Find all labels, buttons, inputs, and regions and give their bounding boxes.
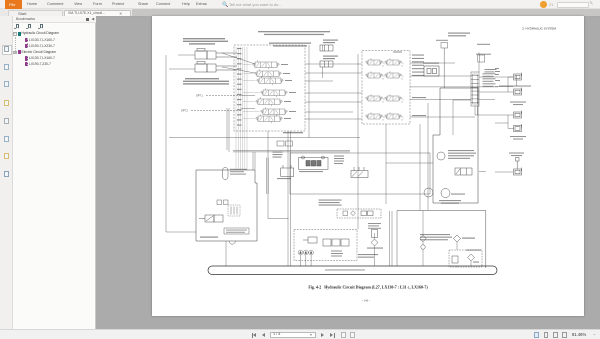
swing motor M1 [424,188,433,197]
wire [305,111,353,113]
return filter drain wire [470,261,472,266]
svg-text:2. HYDRAULIC SYSTEM: 2. HYDRAULIC SYSTEM [522,27,556,31]
solenoid manifold [351,167,368,178]
pilot valve row squares [343,211,348,216]
boom cylinder labels [183,38,225,39]
anti-drift riser wire [322,45,324,51]
travel-right spool [256,97,283,106]
bucket spool [257,76,284,85]
pilot manifold squares [217,200,228,205]
rotary joint drop wire [474,106,476,115]
svg-text:OPT 2: OPT 2 [181,110,189,113]
pump pressure rail wire [357,54,359,230]
cooler riser wire [479,171,486,173]
swing motor spool A [366,58,385,66]
port relief valve [423,63,439,64]
main pump P2 [303,250,308,255]
motor wire [475,114,508,116]
right bank labels [412,55,424,56]
swing valve label [476,54,491,55]
pump relief valve [303,237,317,243]
vertical dotted tree lines [15,37,16,53]
solenoid valve SV1 [455,168,472,175]
gear pump P3 [309,250,314,255]
pump dashed enclosure [294,230,357,261]
pump suction wire [300,255,302,266]
motor wire [479,91,508,93]
main valve label [485,69,497,70]
swing/travel valve dashed enclosure [362,51,410,125]
wire [305,92,362,94]
solenoid valve labels [448,33,470,34]
drain rail wire [427,103,429,211]
tank drop wire [290,131,292,266]
travel spool A [366,94,385,102]
rotary joint text block [483,73,496,74]
travel motor left block B [514,124,522,132]
check port block [281,165,294,176]
pilot filter labels [368,223,381,224]
check valve block [277,141,293,146]
wire [305,118,362,120]
anti-drift valve V1 [323,40,338,41]
right bank drain wire [385,124,387,204]
travel motor right block B [514,88,522,96]
pressure check coupler [516,158,520,170]
pilot feed double wire [227,108,229,152]
pilot filter F1 [372,230,378,238]
cooler outlet wire [456,242,458,250]
bank link wire [305,72,362,74]
boom spool [253,60,280,69]
main pump label [358,254,378,255]
attachment motor M2 [441,189,450,198]
block bottom notch [229,241,235,244]
cooler branch wire [422,211,424,236]
attachment piping note [258,31,330,32]
return filter valve [452,256,458,263]
main relief valve label [283,132,303,133]
motor labels [451,194,465,195]
wire [305,80,333,82]
suction strainer label [200,237,218,238]
travel-left spool [256,114,283,123]
pilot filter dashed column [228,205,240,216]
solenoid feed wire [452,100,454,135]
stop valve [478,53,485,63]
tank drop wire [287,131,289,266]
swing brake label [510,136,526,137]
svg-text:Fig. 4-2 Hydraulic Circuit D: Fig. 4-2 Hydraulic Circuit Diagram (L27,… [308,285,428,290]
stop valve riser wire [478,62,480,72]
upper solenoid block [441,43,448,89]
rotary joint [471,72,479,106]
travel motor bracket wire [508,77,514,92]
main control valve dashed enclosure [234,45,305,131]
rotary joint feed wire [410,75,471,77]
option spool [261,107,288,116]
solenoid text lines [420,234,450,235]
accumulator labels [448,150,474,151]
wire [305,101,362,103]
pump suction wire [310,255,312,266]
pilot supply rail wire [233,150,350,152]
main pump P1 [298,250,303,255]
return filter dashed box [449,250,482,267]
solenoid valve SV2 [199,215,223,222]
travel motor left block A [514,111,522,119]
arm spool [255,69,282,78]
travel spool B [366,112,385,120]
tank label [325,269,365,270]
oil limiter label [477,44,490,45]
accumulator A1 [437,152,445,160]
travel feed wire [410,116,475,118]
right drain rail wire [419,124,421,211]
oil cooler [454,235,461,242]
anti-drift valve V2 [323,56,338,57]
swivel labels [334,156,344,157]
rotary joint feed wire [410,86,498,88]
rotary joint feed wire [410,98,471,100]
main valve title [393,52,402,53]
pump regulator block [323,239,349,246]
remote control valve enclosure [196,170,257,241]
pilot source dashed box [337,209,381,218]
standpipe wires [265,158,267,195]
return line enclosure [397,211,486,269]
travel speed wire+label [495,86,513,88]
tank return header wire [169,137,360,139]
left trunk wire [165,55,167,232]
accumulator link wire [386,162,433,164]
pilot return elbow wire [268,218,289,220]
filter drain wire [374,246,376,266]
motor wire [479,98,495,100]
pump spec text [331,251,342,252]
return filter element [468,254,475,261]
main control valve block title [269,43,311,44]
pilot accumulator [223,168,229,180]
left trunk elbow wire [166,231,196,233]
boom cylinder C1 [195,49,237,60]
motor wire [479,76,513,78]
extra cushion labels [273,152,283,153]
tank drop wire [422,249,424,266]
swing spool [261,88,288,97]
travel brake label [510,102,526,103]
cylinder feed wire [178,54,195,56]
pilot return wire [267,131,269,219]
pilot motor block [514,168,522,176]
svg-text:OPT 1: OPT 1 [196,95,204,98]
svg-text:- 141 -: - 141 - [362,299,370,303]
bank right rail wire [308,45,310,138]
oil pressure source label [509,153,524,154]
travel motor right block A [514,73,522,81]
hydraulic oil tank [208,266,497,275]
bank link wire [305,63,362,65]
pump suction wire [305,255,307,266]
valve link wire [410,62,455,64]
tank standpipes [389,211,391,266]
anti-drift riser wire [322,67,324,78]
swing motor spool B [366,71,385,79]
center enclosure [290,153,430,194]
travel valve labels [319,200,342,201]
proportional valve label box [224,228,249,234]
accumulator enclosure [433,88,478,203]
rotary joint port labels [495,68,499,69]
cushion valve label [299,171,323,172]
port label column [237,48,242,49]
bucket cylinder labels [185,78,219,79]
arm cylinder C2 [195,62,237,73]
bracket wire [495,115,514,129]
pilot suction wire [225,241,227,266]
bypass check valve [420,235,426,241]
cushion valve [299,156,329,169]
pilot line bundle wires [235,47,237,170]
cylinder feed wire [169,68,195,70]
